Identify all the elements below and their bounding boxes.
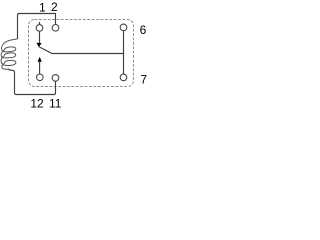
arrowhead on pin-12 arm	[38, 57, 42, 62]
coil L1	[1, 39, 17, 69]
pole blade: pin-1 arm to 6-7 bar	[39, 47, 124, 54]
wire: coil bottom lead to pin 11	[8, 69, 56, 94]
pin 11 terminal circle	[52, 75, 59, 82]
arrowhead on pin-1 arm	[36, 43, 41, 47]
pin 7 terminal circle	[120, 74, 127, 81]
pin 1 terminal circle	[36, 25, 43, 32]
wire: coil top lead to pin 2	[18, 14, 56, 40]
svg-text:11: 11	[49, 97, 62, 110]
pin 2 terminal circle	[52, 25, 59, 32]
pin 6 terminal circle	[120, 24, 127, 31]
svg-text:7: 7	[140, 73, 147, 87]
link bar between pins 6 and 7	[123, 31, 125, 75]
pin 1 stub to case edge	[39, 22, 41, 25]
arm from pin 12	[39, 61, 41, 74]
relay case outline (dashed)	[29, 20, 134, 87]
svg-text:6: 6	[140, 23, 147, 37]
pin 12 terminal circle	[37, 74, 44, 81]
svg-text:2: 2	[51, 0, 58, 14]
svg-text:12: 12	[30, 97, 44, 110]
armature arm from pin 1	[39, 31, 41, 44]
svg-text:1: 1	[39, 0, 46, 14]
